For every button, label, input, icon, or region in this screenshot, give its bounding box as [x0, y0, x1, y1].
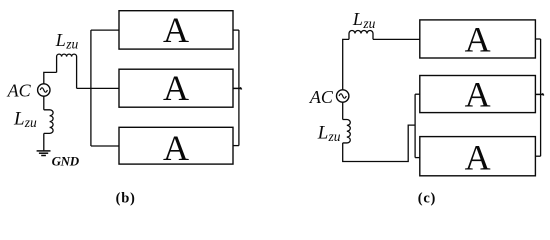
svg-text:A: A — [465, 75, 491, 115]
svg-text:AC: AC — [7, 81, 32, 101]
wire stub bottom module to right bus (c) — [535, 155, 540, 157]
svg-text:(b): (b) — [116, 191, 136, 207]
svg-text:GND: GND — [52, 154, 80, 169]
inductor L_zu3 (series, horizontal, 4 humps) — [349, 31, 373, 40]
right bus wire (c) — [540, 39, 542, 156]
wire stub top module to right bus (b) — [233, 29, 239, 31]
wire stub top module to right bus (c) — [535, 38, 540, 40]
wire stub bus to top module (b) — [91, 29, 119, 31]
wire stub jumper to bottom module (c) — [415, 157, 420, 159]
svg-text:A: A — [465, 138, 491, 178]
label L_zu (top, b) — [55, 30, 79, 52]
inductor L_zu2 (shunt, vertical, 4 humps) — [44, 110, 53, 134]
svg-text:zu: zu — [65, 37, 78, 52]
right bus wire (b) — [238, 30, 240, 146]
svg-text:A: A — [465, 20, 491, 60]
junction dot on right bus (c) — [542, 93, 543, 95]
label L_zu (left, c) — [317, 123, 341, 145]
svg-text:A: A — [163, 10, 189, 50]
svg-text:(c): (c) — [418, 191, 436, 207]
sine wave inside AC source V2 — [339, 94, 346, 98]
svg-text:zu: zu — [362, 16, 375, 31]
svg-text:L: L — [13, 108, 25, 129]
module A4 (top box, c) — [420, 20, 536, 58]
wire stub middle module to right bus with junction tick (b) — [233, 87, 241, 89]
left bus wire (b) — [90, 30, 92, 146]
wire from AC source bottom to inductor L_zu2 — [43, 96, 45, 110]
AC source V1 (circle with sine) — [38, 84, 50, 96]
wire from AC source bottom to inductor L_zu4 — [342, 102, 344, 119]
wire from inductor L_zu1 to middle module (node in) — [77, 87, 119, 89]
wire stub jumper to middle module (c) — [415, 93, 420, 95]
module A2 (middle box, b) — [119, 69, 233, 107]
svg-text:zu: zu — [328, 129, 341, 144]
ground symbol — [37, 151, 51, 156]
label L_zu (top, c) — [352, 9, 376, 31]
svg-text:L: L — [352, 9, 363, 29]
wire from AC source top to inductor L_zu3 — [343, 39, 349, 89]
module A5 (middle box, c) — [420, 76, 536, 113]
svg-text:AC: AC — [309, 87, 334, 107]
module A3 (bottom box, b) — [119, 127, 233, 164]
wire stub middle module to right bus with junction tick (c) — [535, 93, 543, 95]
svg-text:A: A — [163, 68, 189, 108]
wire from inductor L_zu3 to top module (c) — [373, 38, 420, 40]
svg-text:L: L — [317, 123, 329, 144]
svg-text:zu: zu — [24, 115, 37, 130]
module A6 (bottom box, c) — [420, 137, 536, 176]
AC source V2 (circle with sine) — [337, 90, 349, 102]
label L_zu (left, b) — [13, 108, 37, 130]
wire from AC source top to inductor L_zu1 — [44, 72, 57, 83]
inductor L_zu4 (series, vertical, 4 humps) — [343, 120, 351, 143]
svg-text:L: L — [55, 30, 66, 50]
return wire bottom run (c) — [343, 125, 415, 161]
left jumper wire W2 (c) — [414, 94, 416, 157]
wire stub bus to bottom module (b) — [91, 145, 119, 147]
inductor L_zu1 (series, horizontal, 4 humps) — [57, 54, 77, 88]
junction dot on right bus (b) — [240, 87, 241, 89]
sine wave inside AC source V1 — [40, 88, 47, 92]
module A1 (top box, b) — [119, 11, 233, 49]
svg-text:A: A — [163, 128, 189, 168]
wire from inductor L_zu2 to ground — [43, 133, 45, 150]
wire stub bottom module to right bus (b) — [233, 145, 239, 147]
